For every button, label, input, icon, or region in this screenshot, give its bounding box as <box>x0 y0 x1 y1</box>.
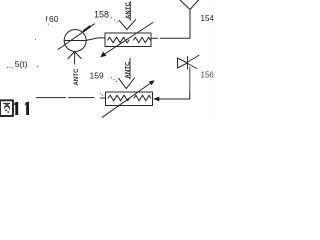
svg-text:156: 156 <box>201 71 215 80</box>
node ANTC control (middle, into combiner 60) <box>68 52 81 86</box>
node ANTC control (top) <box>119 1 136 29</box>
figure caption digit 1 <box>25 102 29 115</box>
variable combiner 60 <box>58 24 95 52</box>
figure caption 图11 <box>0 100 13 116</box>
wire combiner 60 to attenuator 158 <box>86 38 105 41</box>
svg-text:158: 158 <box>94 10 109 20</box>
variable attenuator 158 <box>100 23 153 58</box>
wire antenna 154 to attenuator 158 <box>151 37 190 39</box>
node signal 5(t) <box>7 39 38 69</box>
svg-text:60: 60 <box>49 14 59 24</box>
svg-text:ANTC: ANTC <box>126 61 132 79</box>
antenna 156 <box>178 55 200 91</box>
svg-text:ANTC: ANTC <box>74 68 80 86</box>
svg-text:154: 154 <box>201 14 215 23</box>
variable attenuator 159 <box>102 80 154 117</box>
antenna 154 <box>180 0 199 38</box>
svg-text:159: 159 <box>90 71 104 81</box>
leader dots 159 <box>100 77 117 96</box>
wire attenuator 159 output (left) <box>36 97 105 99</box>
node ANTC control (bottom) <box>119 59 135 89</box>
wire antenna 156 to attenuator 159 <box>153 91 190 101</box>
label 60 <box>46 14 59 25</box>
leader dots 158 <box>111 17 118 23</box>
svg-text:5(t): 5(t) <box>15 59 28 69</box>
svg-text:ANTC: ANTC <box>126 1 132 19</box>
figure caption digit 1 <box>14 102 19 115</box>
